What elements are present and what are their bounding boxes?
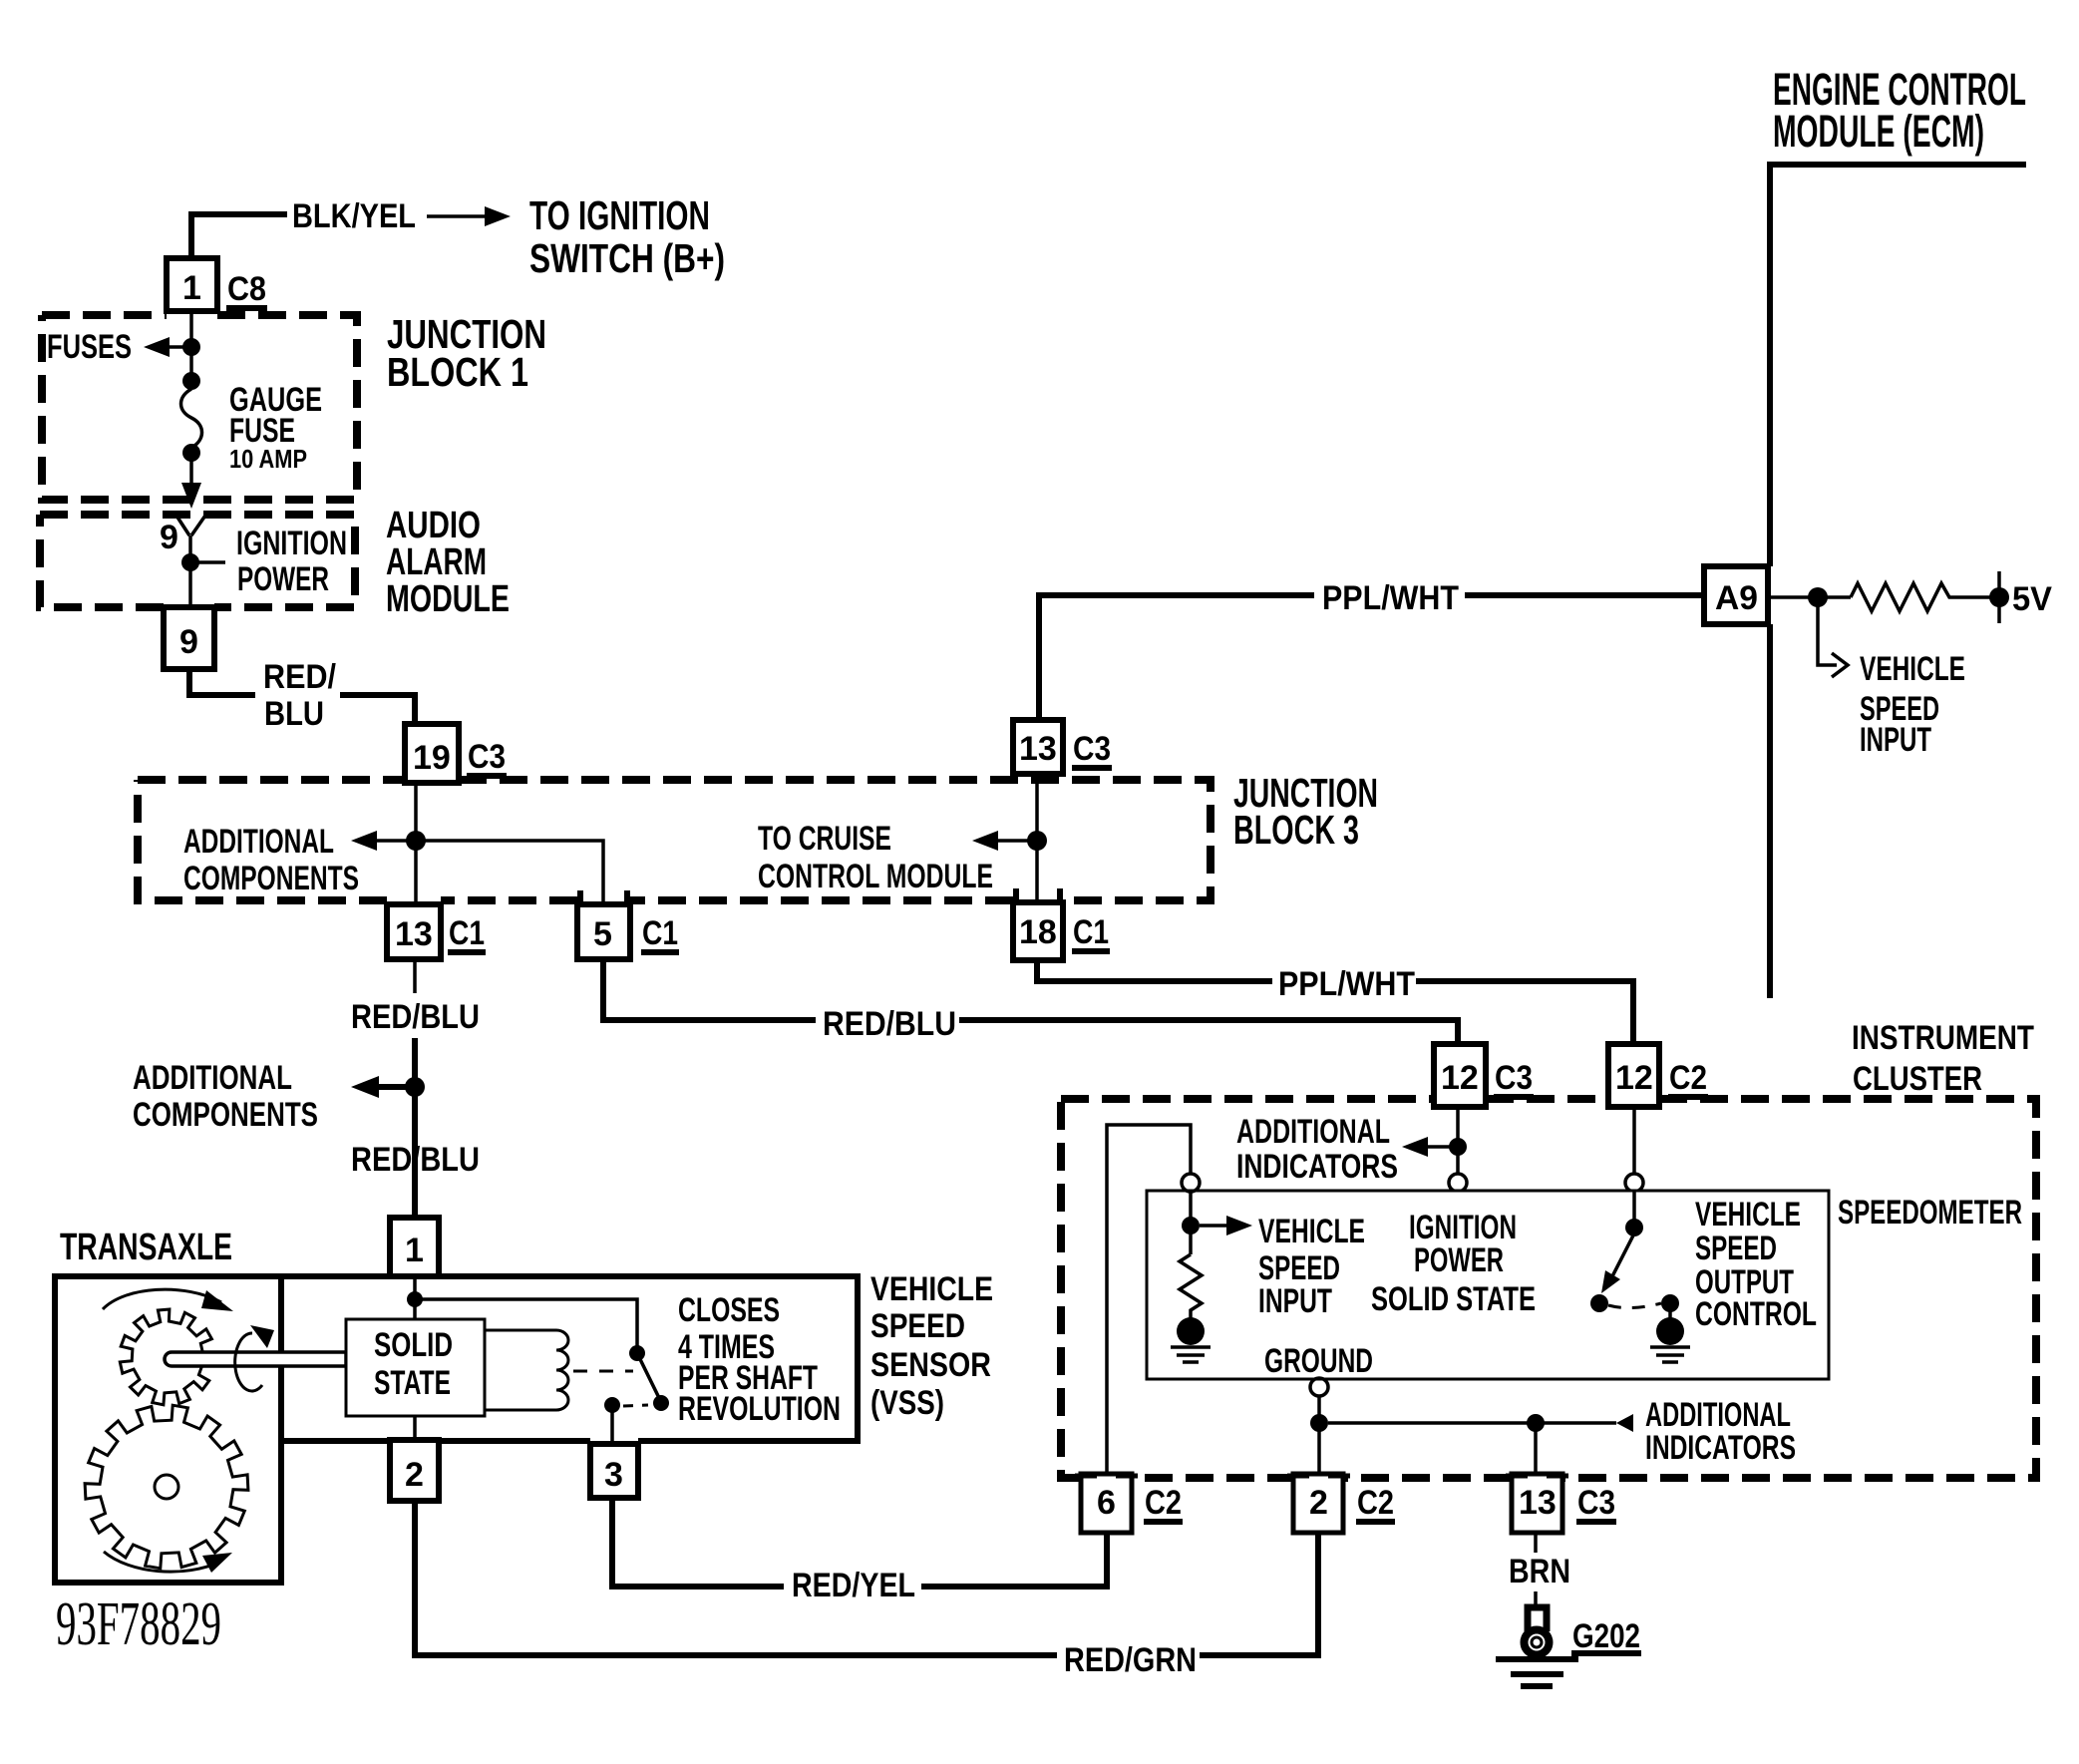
switch contact dot arm end	[653, 1395, 669, 1411]
svg-text:BLK/YEL: BLK/YEL	[292, 197, 416, 235]
pin 9 Y receptacle	[174, 513, 207, 556]
wire RED/GRN from VSS pin 2 to 2C2	[415, 1502, 1318, 1655]
svg-text:RED/BLU: RED/BLU	[823, 1005, 956, 1043]
svg-text:INDICATORS: INDICATORS	[1236, 1148, 1398, 1186]
connector pin 3 (VSS)	[590, 1444, 638, 1498]
svg-text:(VSS): (VSS)	[870, 1384, 944, 1422]
connector 6 C2	[1081, 1474, 1132, 1533]
junction block 1 dashed box	[42, 315, 357, 500]
ground G202 earth lines	[1496, 1659, 1578, 1686]
gear large (drive)	[85, 1405, 248, 1569]
svg-text:C1: C1	[449, 914, 485, 952]
connector 12 C2	[1608, 1044, 1659, 1107]
svg-text:SOLID: SOLID	[374, 1326, 453, 1364]
wire RED/BLU from 5C1 to 12C3	[603, 959, 1458, 1044]
wire PPL/WHT from 13C3 to ECM A9	[1039, 595, 1701, 720]
instrument cluster dashed box	[1061, 1099, 2036, 1478]
gear small (driven)	[120, 1309, 215, 1405]
switch contact dot pole	[604, 1397, 620, 1413]
svg-text:5V: 5V	[2012, 580, 2052, 618]
connector 13 C3 (cluster bottom)	[1512, 1474, 1562, 1533]
svg-text:INSTRUMENT: INSTRUMENT	[1852, 1019, 2034, 1057]
connector 12 C3	[1434, 1044, 1486, 1107]
switch arm	[637, 1353, 661, 1402]
ECM module outline	[1770, 165, 2026, 998]
svg-text:INDICATORS: INDICATORS	[1645, 1429, 1796, 1467]
transaxle box	[55, 1276, 281, 1583]
ground symbol (speed input)	[1177, 1317, 1205, 1345]
pin circle ignition power	[1449, 1174, 1467, 1192]
svg-text:VEHICLE: VEHICLE	[870, 1270, 993, 1308]
svg-text:VEHICLE: VEHICLE	[1695, 1196, 1801, 1234]
svg-text:1: 1	[405, 1232, 424, 1269]
connector 19 C3	[405, 724, 459, 783]
switch arm with arrowhead	[1612, 1234, 1634, 1276]
wire ground bus to additional indicators	[1328, 1421, 1616, 1425]
svg-text:CLUSTER: CLUSTER	[1853, 1060, 1982, 1098]
svg-text:POWER: POWER	[237, 560, 329, 598]
connector pin 1 (VSS)	[390, 1218, 439, 1276]
speedometer solid state box	[1147, 1191, 1829, 1379]
connector 13 C1	[387, 904, 441, 959]
node junction dot	[1527, 1414, 1545, 1432]
svg-text:6: 6	[1097, 1484, 1116, 1522]
connector 2 C2	[1293, 1474, 1343, 1533]
wire contact to ground	[1668, 1310, 1672, 1320]
svg-text:ADDITIONAL: ADDITIONAL	[183, 823, 334, 861]
svg-text:TO IGNITION: TO IGNITION	[529, 192, 710, 238]
svg-text:RED/BLU: RED/BLU	[351, 1141, 480, 1179]
wire 12C2 down into cluster	[1632, 1107, 1636, 1174]
arrowhead from additional indicators	[1616, 1414, 1633, 1432]
node junction dot	[405, 1077, 425, 1097]
svg-text:ADDITIONAL: ADDITIONAL	[1236, 1113, 1390, 1151]
wire branch additional components arrow	[369, 1084, 415, 1090]
svg-text:18: 18	[1019, 913, 1057, 951]
svg-text:SPEED: SPEED	[1695, 1230, 1777, 1267]
svg-text:G202: G202	[1572, 1617, 1640, 1655]
svg-text:SPEEDOMETER: SPEEDOMETER	[1838, 1194, 2022, 1232]
svg-text:C1: C1	[642, 914, 678, 952]
connector pin 9 box	[164, 607, 214, 669]
svg-text:TRANSAXLE: TRANSAXLE	[60, 1227, 232, 1268]
svg-text:9: 9	[160, 519, 178, 556]
svg-text:SPEED: SPEED	[870, 1307, 965, 1345]
svg-text:RED/BLU: RED/BLU	[351, 998, 480, 1036]
dashed actuation line coil to switch	[573, 1370, 633, 1373]
svg-text:POWER: POWER	[1414, 1241, 1504, 1279]
svg-text:SOLID STATE: SOLID STATE	[1371, 1280, 1536, 1318]
pin circle vehicle speed output	[1625, 1174, 1643, 1192]
wire from 6C2 up and over to speed input pin	[1107, 1125, 1191, 1473]
rotation arrow above small gear	[103, 1289, 221, 1309]
svg-text:CONTROL: CONTROL	[1695, 1295, 1817, 1333]
svg-text:PPL/WHT: PPL/WHT	[1322, 579, 1459, 617]
wire branch to connector 5 C1	[416, 841, 603, 904]
switch contact dot output	[1661, 1294, 1679, 1312]
svg-text:C3: C3	[1073, 730, 1111, 768]
wire PPL/WHT from 18C1 to 12C2	[1037, 960, 1633, 1044]
svg-text:C3: C3	[1577, 1484, 1615, 1522]
wire 19C3 to 13C1 through node	[414, 783, 418, 904]
svg-text:BLU: BLU	[264, 695, 324, 733]
svg-text:CLOSES: CLOSES	[678, 1291, 780, 1329]
wire RED/BLU from pin 9 to connector 19 C3	[189, 669, 415, 724]
wire branch to cruise control arrow	[988, 839, 1037, 843]
wire BLK/YEL from connector C8 to ignition switch	[191, 214, 287, 259]
svg-text:10 AMP: 10 AMP	[229, 444, 307, 474]
svg-text:19: 19	[413, 739, 451, 777]
svg-text:MODULE (ECM): MODULE (ECM)	[1773, 106, 1984, 157]
node junction dot	[1310, 1414, 1328, 1432]
pin circle vehicle speed input	[1182, 1174, 1200, 1192]
svg-text:RED/YEL: RED/YEL	[792, 1567, 915, 1604]
svg-text:STATE: STATE	[374, 1364, 451, 1402]
vehicle speed sensor (VSS) box	[281, 1276, 858, 1441]
node junction dot	[182, 338, 200, 356]
junction block 3 dashed box	[138, 780, 1211, 900]
svg-text:3: 3	[604, 1456, 623, 1494]
wire 13C3 to 18C1 through node	[1035, 774, 1039, 902]
svg-text:13: 13	[1519, 1484, 1557, 1522]
node junction dot	[1808, 587, 1828, 607]
svg-text:13: 13	[1019, 730, 1057, 768]
svg-text:MODULE: MODULE	[386, 578, 510, 620]
connector 18 C1	[1013, 902, 1063, 960]
dashed link to output contact	[1608, 1303, 1661, 1308]
node junction dot	[1182, 1217, 1200, 1235]
node junction dot with stub	[181, 553, 199, 571]
connector 5 C1	[577, 904, 630, 959]
svg-text:INPUT: INPUT	[1860, 721, 1931, 759]
svg-text:FUSES: FUSES	[47, 328, 132, 366]
node junction dot	[406, 831, 426, 851]
svg-text:12: 12	[1441, 1059, 1479, 1097]
svg-text:INPUT: INPUT	[1258, 1282, 1332, 1320]
svg-text:AUDIO: AUDIO	[386, 505, 481, 546]
svg-text:C3: C3	[468, 738, 506, 776]
svg-text:13: 13	[395, 915, 433, 953]
switch contact dot upper	[629, 1345, 645, 1361]
fuse GAUGE FUSE 10 AMP squiggle	[181, 389, 202, 448]
solid state box (VSS)	[346, 1319, 485, 1416]
wire arrow vehicle speed input label	[1200, 1224, 1236, 1228]
svg-text:PPL/WHT: PPL/WHT	[1278, 965, 1415, 1003]
svg-text:2: 2	[405, 1456, 424, 1494]
connector A9	[1704, 566, 1768, 624]
svg-text:TO CRUISE: TO CRUISE	[758, 820, 891, 858]
svg-text:BLOCK 3: BLOCK 3	[1233, 807, 1359, 853]
wire RED/BLU from 13 C1 down to VSS pin 1	[413, 959, 417, 993]
wire fuse output arrow down	[189, 459, 193, 493]
svg-text:1: 1	[182, 269, 201, 307]
svg-text:CONTROL MODULE: CONTROL MODULE	[758, 858, 993, 895]
svg-text:C2: C2	[1357, 1484, 1394, 1522]
wire 12C3 down into cluster	[1456, 1107, 1460, 1174]
connector pin 2 (VSS)	[390, 1440, 439, 1501]
svg-text:C3: C3	[1495, 1059, 1533, 1097]
wire A9 to 5V pullup	[1768, 595, 1851, 599]
svg-text:C1: C1	[1073, 913, 1109, 951]
svg-text:ADDITIONAL: ADDITIONAL	[133, 1059, 292, 1097]
svg-text:9: 9	[179, 623, 198, 661]
svg-text:2: 2	[1309, 1484, 1328, 1522]
pin circle ground	[1310, 1378, 1328, 1396]
wire pole contact to pin 3	[610, 1411, 614, 1444]
audio alarm module dashed box	[40, 515, 355, 607]
svg-text:IGNITION: IGNITION	[236, 525, 347, 562]
svg-text:12: 12	[1615, 1059, 1653, 1097]
wire to fuses with arrow	[158, 345, 189, 349]
switch pivot node (speed output)	[1632, 1192, 1636, 1225]
node junction dot	[1449, 1138, 1467, 1156]
svg-text:COMPONENTS: COMPONENTS	[133, 1096, 318, 1134]
wire node to 13C3	[1534, 1423, 1538, 1473]
connector 13 C3 (junction block 3 top)	[1013, 720, 1063, 774]
svg-text:93F78829: 93F78829	[56, 1590, 221, 1658]
gear large hub circle	[155, 1475, 178, 1499]
svg-text:REVOLUTION: REVOLUTION	[678, 1390, 841, 1428]
svg-text:A9: A9	[1715, 579, 1758, 617]
svg-text:GROUND: GROUND	[1264, 1342, 1373, 1380]
node junction dot	[182, 444, 200, 462]
resistor to ground (cluster)	[1180, 1254, 1202, 1318]
svg-text:ALARM: ALARM	[386, 541, 487, 583]
node 5V dot and tick	[1989, 587, 2009, 607]
svg-text:SENSOR: SENSOR	[870, 1346, 991, 1384]
wire ground pin down to 2C2	[1317, 1396, 1321, 1473]
rotation arrow around shaft	[235, 1333, 262, 1391]
svg-text:VEHICLE: VEHICLE	[1860, 650, 1965, 688]
svg-text:BRN: BRN	[1509, 1553, 1570, 1590]
svg-text:RED/: RED/	[263, 658, 336, 696]
rotation arrow below large gear	[104, 1552, 220, 1572]
svg-text:VEHICLE: VEHICLE	[1258, 1213, 1365, 1250]
wire branch to additional components arrow	[367, 839, 416, 843]
shaft from gear to sensor (double line)	[165, 1352, 346, 1366]
svg-text:SWITCH (B+): SWITCH (B+)	[529, 235, 725, 281]
connector C8 pin 1	[167, 258, 217, 311]
svg-text:C8: C8	[227, 270, 266, 308]
dashed link between contacts	[623, 1405, 648, 1406]
ground G202 bolt symbol	[1528, 1607, 1547, 1631]
wire RED/YEL from VSS pin 3 to 6C2	[612, 1498, 1107, 1587]
resistor pullup	[1851, 583, 1999, 611]
svg-text:5: 5	[593, 915, 612, 953]
wire pin1 to solid state and switch	[415, 1276, 637, 1346]
wire C8 to fuse	[189, 311, 193, 389]
svg-text:C2: C2	[1145, 1484, 1182, 1522]
wire branch additional indicators arrow	[1418, 1145, 1458, 1149]
wire BRN from 13C3 to G202	[1534, 1533, 1538, 1607]
wire arrow vehicle speed input (ECM)	[1818, 606, 1848, 677]
svg-text:BLOCK 1: BLOCK 1	[387, 349, 528, 395]
svg-text:C2: C2	[1669, 1059, 1707, 1097]
wire pin to input node	[1189, 1192, 1193, 1254]
wire solid state to pin 2	[413, 1416, 417, 1444]
node junction dot	[182, 372, 200, 390]
coil of VSS pickup	[485, 1330, 568, 1410]
ground symbol (speed output)	[1656, 1317, 1684, 1345]
svg-text:COMPONENTS: COMPONENTS	[183, 860, 359, 897]
wire arrow to ignition switch	[427, 214, 497, 218]
node junction dot	[407, 1291, 423, 1307]
switch contact dot pole	[1590, 1294, 1608, 1312]
node junction dot	[1027, 831, 1047, 851]
svg-text:RED/GRN: RED/GRN	[1064, 1641, 1197, 1679]
